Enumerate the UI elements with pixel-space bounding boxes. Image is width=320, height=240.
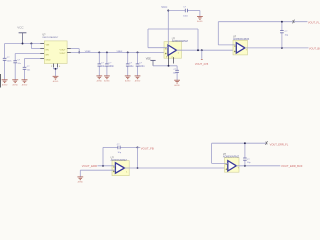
op-amp U2A triangle: [168, 45, 177, 55]
svg-text:VOUT: VOUT: [60, 49, 67, 51]
op-amp input pin marks: [165, 48, 167, 50]
capacitor on U2A V- drop: [176, 66, 178, 71]
svg-text:100n: 100n: [109, 65, 115, 68]
svg-text:VREF: VREF: [85, 51, 91, 53]
junction U3A minus: [102, 165, 104, 167]
junction VOUT label stub: [201, 49, 203, 51]
wire U2A feedback loop: [148, 47, 168, 49]
capacitor U3A feedback (series on rail): [103, 146, 118, 148]
svg-text:AD8606ARMZ: AD8606ARMZ: [172, 40, 189, 43]
svg-text:10u: 10u: [101, 65, 106, 68]
wire EN jumper to pin2: [30, 44, 32, 49]
svg-text:AD8606ARMZ: AD8606ARMZ: [233, 38, 250, 41]
net label VOUT_FB: [141, 146, 154, 150]
op-amp U4A AD8606 body: [225, 158, 240, 173]
wire U4A output: [236, 165, 280, 167]
ground rail drop 3: [125, 75, 131, 77]
wire U3A minus input: [98, 165, 116, 167]
net label VCC at U2A: [161, 5, 167, 9]
net label VOUT_BUF: [309, 47, 320, 51]
ground VCC decap: [197, 16, 203, 18]
svg-text:VIN: VIN: [46, 44, 50, 46]
capacitor on rail drop 1: [98, 52, 100, 64]
svg-text:VOUT: VOUT: [60, 53, 67, 55]
capacitor C1 on VIN rail drop: [4, 44, 6, 59]
no-ERC mark on U4A rail: [266, 141, 268, 145]
capacitor on rail drop 2: [106, 52, 108, 64]
op-amp U3A AD8606 body: [112, 161, 129, 176]
wire U2A output: [177, 49, 237, 51]
capacitor C3 on pin4 drop: [24, 59, 26, 68]
wire U1 ground net: [52, 67, 54, 69]
svg-text:NR: NR: [46, 54, 50, 56]
wire rail to label: [138, 146, 141, 148]
ground rail drop 1: [96, 75, 102, 77]
wire U3A feedback loop left: [102, 147, 104, 165]
wire U2B feedback rail: [218, 21, 307, 23]
U1 bottom pin stubs: [52, 64, 54, 68]
U1 right pin stubs: [67, 48, 71, 50]
junction U4A rail to cap: [244, 142, 246, 144]
net label VOUT_2V5 stub: [201, 50, 203, 59]
capacitor C2 on pin3 drop: [14, 54, 16, 61]
wire down to ground at VCC decap: [199, 11, 201, 17]
wire pin3: [15, 53, 40, 55]
wire U3A output to U4: [125, 167, 228, 169]
wire VREF rail to buffer: [71, 51, 168, 53]
op-amp output pin texts: [126, 171, 128, 173]
svg-text:VOUT_ERR: VOUT_ERR: [82, 164, 97, 168]
op-amp U4A triangle: [228, 161, 237, 171]
svg-text:AD8606ARMZ: AD8606ARMZ: [111, 159, 128, 162]
capacitor on rail drop 4: [137, 52, 139, 64]
wire U2B output: [245, 47, 309, 49]
svg-text:EN: EN: [46, 49, 49, 51]
wire U2B minus input: [218, 44, 236, 46]
ground for C1: [2, 79, 8, 81]
junction rail drop 3: [127, 51, 129, 53]
junction feedback at output: [197, 49, 199, 51]
op-amp U2B triangle: [236, 43, 245, 53]
net label VREF 2: [117, 51, 123, 53]
net label VREF: [85, 51, 91, 53]
svg-text:VCC: VCC: [161, 5, 167, 9]
U2A NC pin stub: [173, 57, 175, 63]
capacitor VCC decoupling (series on wire): [168, 10, 185, 12]
junction force-sense: [78, 51, 80, 53]
svg-text:VEE: VEE: [146, 57, 151, 60]
wire U3A feedback down: [137, 147, 139, 168]
no-ERC mark on rail: [293, 20, 295, 24]
net label VOUT_FL_N: [308, 20, 320, 24]
capacitor on rail drop 3: [127, 52, 129, 64]
U2A V- pin stub: [168, 55, 170, 66]
ground U2A V-: [174, 79, 180, 81]
net label VOUT_ERR at minus: [82, 164, 97, 168]
wire pin4: [25, 58, 41, 60]
junction on VIN rail at EN jumper: [30, 43, 32, 45]
junction V- pin: [168, 65, 170, 67]
power bar V- for U2A: [146, 57, 151, 60]
junction U2B rail to cap: [281, 21, 283, 23]
ground for C2: [12, 79, 18, 81]
svg-text:GND: GND: [46, 59, 51, 61]
svg-text:VREF: VREF: [117, 51, 123, 53]
wire VCC to U2A V+: [167, 11, 169, 46]
svg-text:VOUT_FB: VOUT_FB: [141, 146, 154, 150]
ground rail drop 4: [135, 75, 141, 77]
wire U4A minus input: [212, 162, 228, 164]
junction rail drop 4: [137, 51, 139, 53]
svg-text:VCC: VCC: [17, 26, 24, 30]
junction U3A rail right: [137, 146, 139, 148]
power port VCC: [17, 26, 24, 30]
ground rail drop 2: [104, 75, 110, 77]
svg-text:AD8606ARMZ: AD8606ARMZ: [223, 156, 240, 159]
junction U4A output to cap: [244, 165, 246, 167]
svg-text:10u: 10u: [129, 65, 134, 68]
junction on VIN rail at VCC: [22, 43, 24, 45]
wire U1 VOUT force-sense loop: [71, 48, 79, 50]
op-amp U3A triangle: [115, 163, 124, 173]
cropped wire at sheet edge: [0, 74, 1, 88]
wire VIN rail (pin1): [5, 43, 41, 45]
junction U3A output: [137, 167, 139, 169]
wire U3A plus input: [80, 169, 115, 171]
svg-text:100n: 100n: [183, 15, 188, 17]
junction rail drop 2: [106, 51, 108, 53]
ground U3A plus: [77, 176, 83, 178]
capacitor U2B feedback: [281, 22, 283, 31]
junction VCC node: [167, 10, 169, 12]
svg-text:100n: 100n: [7, 61, 12, 63]
junction U2B output to cap: [281, 47, 283, 49]
op-amp U2B AD8606 body: [233, 40, 248, 55]
capacitor U4A feedback: [244, 143, 246, 158]
wire U4A feedback rail: [212, 142, 266, 144]
junction rail drop 1: [98, 51, 100, 53]
op-amp U2A AD8606 body: [164, 42, 182, 59]
ground for U1: [53, 75, 59, 77]
net label VERR_FL: [270, 142, 289, 146]
voltage reference U1 REF2912: [44, 41, 67, 64]
svg-text:100n: 100n: [139, 65, 145, 68]
ground for C3: [22, 79, 28, 81]
net label VERR_OUT: [281, 164, 303, 168]
wire U2A V- net: [153, 65, 177, 67]
